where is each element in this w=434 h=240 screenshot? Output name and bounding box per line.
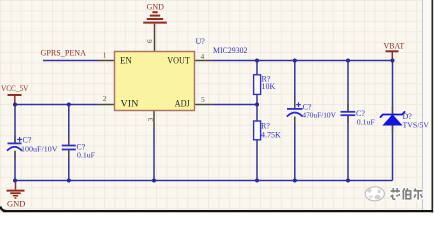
capacitor C? 0.1uF right (341, 112, 356, 115)
svg-text:4.75K: 4.75K (261, 131, 281, 140)
svg-text:100uF/10V: 100uF/10V (21, 144, 58, 153)
svg-text:VIN: VIN (121, 99, 140, 109)
pin 2 (97, 104, 115, 106)
wire pin3 to ground rail (153, 129, 155, 181)
svg-text:ADJ: ADJ (175, 98, 191, 108)
junction top rail at 470uF (293, 59, 297, 63)
svg-text:GND: GND (147, 2, 165, 11)
svg-text:2: 2 (103, 94, 107, 103)
wire VOUT rail (213, 60, 393, 62)
svg-text:C?: C? (23, 136, 32, 145)
screenshot right border (432, 0, 434, 213)
wire ADJ to resistor divider (213, 104, 257, 106)
svg-text:GND: GND (7, 199, 25, 209)
svg-text:470uF/10V: 470uF/10V (302, 111, 336, 120)
watermark text 芯伯乐 (391, 188, 423, 200)
junction top rail at R chain (255, 59, 259, 63)
pin 1 (97, 60, 115, 62)
junction ground rail at GND (13, 179, 17, 183)
junction ground rail at 0.1uF left (67, 179, 71, 183)
capacitor C? 0.1uF left (62, 146, 76, 150)
junction ground rail at pin3 (152, 179, 156, 183)
svg-text:EN: EN (120, 56, 132, 66)
resistor R? 10K (254, 75, 261, 95)
svg-text:6: 6 (145, 39, 154, 43)
svg-text:0.1uF: 0.1uF (357, 117, 376, 126)
pin 4 (195, 60, 214, 62)
junction top rail at 0.1uF (346, 59, 350, 63)
svg-text:0.1uF: 0.1uF (77, 150, 96, 159)
junction top rail at VBAT/diode (391, 59, 395, 63)
svg-text:U?: U? (196, 37, 206, 46)
junction ADJ at divider (255, 103, 259, 107)
watermark logo icon (365, 187, 384, 201)
sheet edge line (422, 0, 424, 213)
junction ground rail at divider (255, 179, 259, 183)
ground bottom left (7, 181, 25, 199)
power symbol VBAT (386, 51, 399, 60)
diode D? TVS/5V (380, 111, 405, 125)
wire C0.1uF right vertical (347, 61, 349, 181)
svg-text:TVS/5V: TVS/5V (403, 120, 430, 129)
wire C0.1uF left vertical (68, 105, 70, 181)
capacitor C? 100uF/10V (7, 137, 22, 151)
watermark text strokes (391, 188, 423, 200)
pin 6 (154, 29, 156, 52)
wire C470uF vertical (294, 61, 296, 181)
wire resistor chain vertical (256, 61, 258, 181)
svg-text:R?: R? (261, 121, 270, 130)
ground top (pin 6) (143, 12, 167, 29)
wire VCC_5V rail (15, 104, 97, 106)
wire TVS diode vertical (392, 61, 394, 181)
svg-text:VOUT: VOUT (167, 56, 190, 66)
svg-text:3: 3 (146, 117, 155, 121)
svg-text:MIC29302: MIC29302 (213, 46, 248, 55)
wire bottom ground rail (15, 180, 393, 182)
resistor R? 4.75K (254, 121, 261, 140)
svg-text:5: 5 (201, 95, 205, 104)
wire C100uF vertical (14, 105, 16, 181)
junction VCC rail at 100uF (13, 103, 17, 107)
wire GPRS_PENA to pin 1 (43, 60, 97, 62)
svg-text:10K: 10K (262, 82, 276, 91)
svg-text:4: 4 (201, 52, 205, 61)
pin 3 (153, 111, 155, 129)
capacitor C? 470uF/10V (287, 102, 303, 116)
svg-text:GPRS_PENA: GPRS_PENA (41, 49, 87, 58)
screenshot bottom border (3, 210, 433, 212)
power symbol VCC_5V (8, 95, 22, 105)
svg-text:1: 1 (103, 50, 107, 59)
op-amp U7 MIC29302 body (115, 52, 195, 111)
pin 5 (195, 104, 214, 106)
junction ground rail at 0.1uF right (346, 179, 350, 183)
junction ground rail at 470uF (293, 179, 297, 183)
svg-text:VCC_5V: VCC_5V (1, 84, 28, 93)
svg-text:VBAT: VBAT (384, 42, 405, 51)
junction VCC rail at 0.1uF (67, 103, 71, 107)
